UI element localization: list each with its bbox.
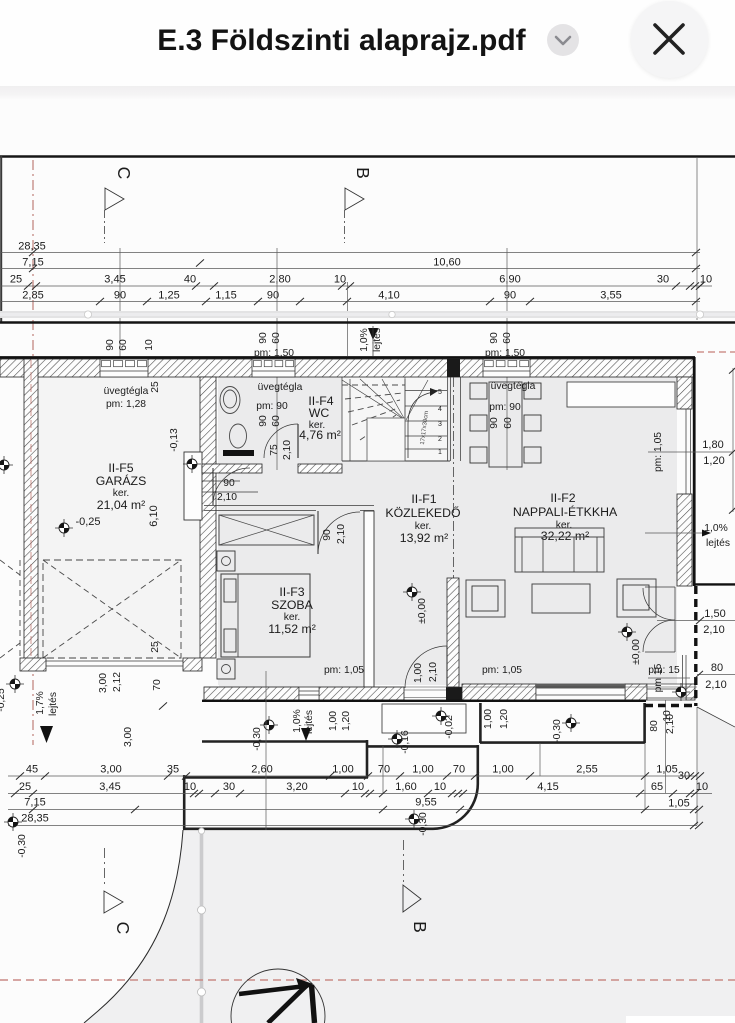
- X glyph: [655, 25, 683, 53]
- right wall: [693, 357, 696, 586]
- svg-text:2,10: 2,10: [282, 440, 293, 460]
- svg-text:-0,25: -0,25: [75, 516, 100, 528]
- svg-text:1,20: 1,20: [499, 709, 510, 729]
- porch: [382, 704, 466, 733]
- coffee table: [532, 584, 590, 613]
- svg-text:65: 65: [651, 781, 663, 793]
- dimension row 7,15 / 10,60: [0, 268, 700, 270]
- paving gray below: [0, 830, 735, 1023]
- svg-text:2,55: 2,55: [576, 764, 597, 776]
- svg-text:30: 30: [678, 770, 690, 782]
- svg-text:pm: 90: pm: 90: [489, 402, 521, 413]
- pillar: [184, 452, 202, 520]
- bottom dim row 3: [8, 809, 697, 811]
- garage left wall: [24, 359, 38, 659]
- svg-text:lejtés: lejtés: [706, 538, 730, 549]
- svg-text:pm: 1,05: pm: 1,05: [324, 665, 364, 676]
- svg-text:2,85: 2,85: [22, 290, 43, 302]
- svg-text:90: 90: [489, 332, 500, 344]
- wc bottom wall: [202, 464, 262, 473]
- svg-text:25: 25: [150, 381, 161, 393]
- svg-text:1,0%: 1,0%: [704, 523, 727, 534]
- red dashed right of building: [697, 351, 735, 353]
- svg-text:GARÁZS: GARÁZS: [96, 473, 147, 488]
- bottom right window: [647, 684, 686, 700]
- svg-text:6,90: 6,90: [499, 274, 520, 286]
- svg-text:B: B: [410, 921, 430, 933]
- header bar: [0, 0, 735, 86]
- level marker bottom right of living: [672, 683, 690, 701]
- stairs: [341, 377, 343, 461]
- svg-text:lejtés: lejtés: [48, 692, 59, 716]
- svg-text:B: B: [353, 167, 373, 179]
- svg-text:70: 70: [378, 764, 390, 776]
- diagonal at SE corner: [697, 707, 735, 727]
- dimension row 2,85/90/1,25/1,15/90/4,10/90/3,55: [0, 301, 700, 303]
- svg-text:13,92 m²: 13,92 m²: [400, 531, 449, 545]
- bedroom right wall: [364, 511, 374, 687]
- garage bottom wall: [20, 658, 46, 671]
- svg-text:KÖZLEKEDŐ: KÖZLEKEDŐ: [385, 505, 460, 520]
- svg-text:10: 10: [144, 339, 155, 351]
- svg-text:C: C: [114, 167, 134, 180]
- gray annotation vertical line: [200, 829, 204, 1023]
- svg-text:70: 70: [453, 764, 465, 776]
- chevron glyph: [556, 37, 570, 44]
- svg-text:2,10: 2,10: [705, 679, 726, 691]
- svg-text:30: 30: [223, 781, 235, 793]
- svg-text:90: 90: [258, 415, 269, 427]
- svg-text:80: 80: [649, 720, 660, 732]
- chevron button: [547, 24, 579, 56]
- svg-text:1,20: 1,20: [341, 711, 352, 731]
- svg-text:SZOBA: SZOBA: [271, 598, 313, 612]
- svg-text:3,20: 3,20: [286, 781, 307, 793]
- svg-text:1,25: 1,25: [158, 290, 179, 302]
- svg-text:II-F2: II-F2: [550, 491, 575, 505]
- svg-text:1,00: 1,00: [483, 709, 494, 729]
- level marker near 9,55: [405, 810, 423, 828]
- svg-text:90: 90: [258, 332, 269, 344]
- garage right wall: [200, 377, 216, 658]
- garage door dashed zone: [43, 560, 181, 658]
- svg-text:3,00: 3,00: [98, 673, 109, 693]
- svg-text:6,10: 6,10: [148, 505, 160, 526]
- svg-text:üvegtégla: üvegtégla: [104, 386, 149, 397]
- svg-text:1,15: 1,15: [215, 290, 236, 302]
- svg-text:4,10: 4,10: [378, 290, 399, 302]
- svg-text:60: 60: [271, 332, 282, 344]
- svg-text:II-F1: II-F1: [411, 492, 436, 506]
- heavy dashed terrace boundary: [694, 586, 697, 706]
- svg-text:60: 60: [502, 332, 513, 344]
- svg-text:40: 40: [184, 274, 196, 286]
- bottom wall outer line: [202, 700, 646, 702]
- svg-text:1,0%: 1,0%: [359, 328, 370, 351]
- close button: [631, 1, 708, 78]
- right outside dims 1,80 1,20: [732, 368, 734, 512]
- armchair right: [617, 579, 656, 617]
- svg-text:25: 25: [10, 274, 22, 286]
- svg-text:2,60: 2,60: [251, 764, 272, 776]
- dining table: [489, 382, 522, 467]
- svg-text:90: 90: [322, 529, 333, 541]
- svg-text:75: 75: [269, 444, 280, 456]
- top frame line: [0, 155, 735, 157]
- svg-text:1,00: 1,00: [413, 663, 424, 683]
- white area left of driveway curve: [0, 830, 183, 1023]
- stair rail dash-dot: [453, 377, 455, 578]
- svg-text:9,55: 9,55: [415, 797, 436, 809]
- svg-text:25: 25: [19, 781, 31, 793]
- annotation strip: [0, 311, 735, 318]
- svg-text:28,35: 28,35: [18, 241, 46, 253]
- svg-text:üvegtégla: üvegtégla: [491, 381, 536, 392]
- svg-text:90: 90: [504, 290, 516, 302]
- glass sliding door: [536, 684, 625, 700]
- compass: [231, 969, 325, 1023]
- svg-text:21,04 m²: 21,04 m²: [97, 498, 146, 512]
- svg-text:45: 45: [26, 764, 38, 776]
- wall hall/living: [447, 578, 459, 687]
- svg-text:10: 10: [434, 781, 446, 793]
- svg-text:2,10: 2,10: [703, 624, 724, 636]
- svg-text:2,10: 2,10: [428, 662, 439, 682]
- garage door: [46, 660, 183, 662]
- svg-text:3: 3: [438, 421, 442, 428]
- svg-text:90: 90: [223, 478, 235, 489]
- wardrobe: [219, 515, 314, 545]
- chairs: [470, 383, 487, 399]
- svg-text:7,15: 7,15: [22, 257, 43, 269]
- svg-text:3,00: 3,00: [123, 727, 134, 747]
- dimension row 25/3,45/40/2,80/10/6,90/30/10: [0, 285, 712, 287]
- title: [0, 24, 683, 58]
- svg-text:±0,00: ±0,00: [631, 639, 642, 665]
- nightstands: [217, 551, 235, 571]
- svg-text:pm: 1,05: pm: 1,05: [482, 665, 522, 676]
- window centre lines: [119, 248, 121, 360]
- wc washbasin: [220, 387, 240, 414]
- door from hall to wc: [212, 468, 214, 505]
- thick line right of building: [694, 583, 735, 585]
- terrace right strip: [479, 703, 482, 743]
- svg-text:32,22 m²: 32,22 m²: [541, 529, 590, 543]
- section marker C bottom: [104, 848, 106, 888]
- bottom dim row 1: [8, 775, 697, 777]
- svg-text:1,00: 1,00: [332, 764, 353, 776]
- interior room floors: [218, 377, 677, 685]
- svg-text:-0,02: -0,02: [444, 715, 455, 739]
- svg-text:10,60: 10,60: [433, 257, 461, 269]
- svg-text:28,35: 28,35: [21, 813, 49, 825]
- svg-text:10: 10: [184, 781, 196, 793]
- svg-text:4,76 m²: 4,76 m²: [299, 428, 341, 442]
- svg-text:1,00: 1,00: [492, 764, 513, 776]
- svg-text:90: 90: [489, 417, 500, 429]
- svg-text:pm: 90: pm: 90: [256, 401, 288, 412]
- svg-text:3,00: 3,00: [100, 764, 121, 776]
- svg-text:5: 5: [438, 389, 442, 396]
- svg-text:WC: WC: [309, 406, 330, 420]
- driveway curve: [84, 830, 183, 1023]
- terrace step: [183, 776, 368, 779]
- svg-text:±0,00: ±0,00: [417, 598, 428, 624]
- front door: [446, 646, 448, 688]
- svg-text:-0,30: -0,30: [17, 834, 28, 858]
- svg-text:üvegtégla: üvegtégla: [258, 382, 303, 393]
- svg-text:1,50: 1,50: [704, 608, 725, 620]
- svg-text:1,05: 1,05: [668, 798, 689, 810]
- svg-text:1,20: 1,20: [703, 455, 724, 467]
- svg-text:-0,30: -0,30: [418, 812, 429, 836]
- svg-text:10: 10: [700, 274, 712, 286]
- svg-text:2,10: 2,10: [217, 492, 237, 503]
- bed: [221, 574, 310, 657]
- bedroom door: [317, 511, 319, 554]
- svg-text:2,12: 2,12: [112, 672, 123, 692]
- svg-text:1,00: 1,00: [412, 764, 433, 776]
- bottom dim row 2: [8, 793, 712, 795]
- 1,0% lejtes right: [645, 532, 702, 534]
- stair centre white: [367, 418, 405, 461]
- svg-text:II-F3: II-F3: [279, 585, 304, 599]
- svg-text:1,0%: 1,0%: [292, 709, 303, 732]
- svg-text:4,15: 4,15: [537, 781, 558, 793]
- svg-text:60: 60: [271, 415, 282, 427]
- svg-text:C: C: [113, 922, 133, 935]
- svg-text:90: 90: [105, 339, 116, 351]
- wc toilet: [230, 424, 247, 448]
- living french door right: [674, 587, 676, 652]
- red dashed line bottom: [0, 979, 735, 981]
- bottom wall: [204, 687, 299, 700]
- svg-text:7,15: 7,15: [24, 797, 45, 809]
- svg-text:4: 4: [438, 406, 442, 413]
- top wall hatched band: [0, 359, 695, 377]
- svg-text:2,10: 2,10: [336, 524, 347, 544]
- svg-text:1: 1: [438, 449, 442, 456]
- svg-text:-0,13: -0,13: [169, 428, 180, 452]
- bottom dim row 4: [8, 825, 697, 827]
- bedroom top wall thin: [204, 505, 374, 507]
- svg-text:60: 60: [118, 339, 129, 351]
- top wall outer face: [0, 356, 695, 359]
- svg-text:1,7%: 1,7%: [35, 691, 46, 714]
- svg-text:pm 15: pm 15: [653, 663, 664, 692]
- kitchen counter: [567, 382, 675, 407]
- right window: [685, 409, 687, 494]
- terrace walkway: [202, 740, 368, 743]
- svg-text:-0,30: -0,30: [252, 727, 263, 751]
- right lower dims: [657, 620, 735, 622]
- wc door: [297, 424, 299, 458]
- svg-text:1,80: 1,80: [702, 439, 723, 451]
- svg-text:II-F5: II-F5: [108, 461, 133, 475]
- white box bottom right: [626, 1016, 735, 1023]
- svg-text:pm: 1,28: pm: 1,28: [106, 399, 146, 410]
- svg-text:80: 80: [711, 662, 723, 674]
- svg-text:35: 35: [167, 764, 179, 776]
- svg-text:3,45: 3,45: [104, 274, 125, 286]
- svg-text:30: 30: [657, 274, 669, 286]
- dimension row 28,35: [0, 252, 700, 254]
- svg-text:-0,25: -0,25: [0, 688, 7, 712]
- svg-text:-0,16: -0,16: [400, 730, 411, 754]
- svg-text:2: 2: [438, 436, 442, 443]
- svg-text:1,05: 1,05: [656, 764, 677, 776]
- section marker B bottom: [403, 840, 405, 882]
- svg-text:10: 10: [352, 781, 364, 793]
- plot boundary thick line: [0, 321, 735, 324]
- svg-text:1,00: 1,00: [328, 711, 339, 731]
- black block in wall: [447, 359, 460, 377]
- svg-text:3,55: 3,55: [600, 290, 621, 302]
- svg-text:60: 60: [503, 417, 514, 429]
- svg-text:10: 10: [662, 710, 673, 722]
- red dashed property line vertical: [32, 160, 34, 745]
- svg-text:NAPPALI-ÉTKKHA: NAPPALI-ÉTKKHA: [513, 504, 618, 519]
- svg-text:2,80: 2,80: [269, 274, 290, 286]
- armchair left: [466, 580, 505, 617]
- sofa: [515, 528, 604, 572]
- svg-text:-0,30: -0,30: [552, 719, 563, 743]
- svg-text:25: 25: [150, 641, 161, 653]
- walk line: [408, 392, 434, 458]
- svg-text:3,45: 3,45: [99, 781, 120, 793]
- svg-text:1,60: 1,60: [395, 781, 416, 793]
- svg-text:11,52 m²: 11,52 m²: [268, 622, 316, 636]
- svg-text:70: 70: [152, 679, 163, 691]
